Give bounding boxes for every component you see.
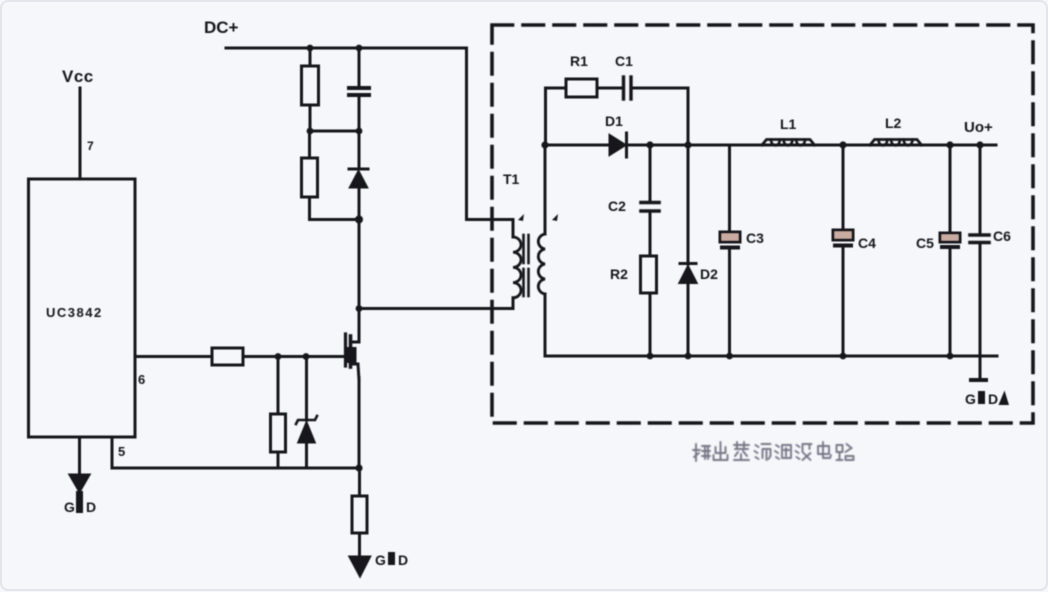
wire snubber right leg (687, 88, 690, 145)
wire pin5 bottom rail (112, 467, 359, 470)
dashed output box (492, 25, 1033, 423)
junction on top rail at x310 (307, 45, 314, 52)
wire drain column (358, 220, 361, 340)
svg-text:C3: C3 (746, 230, 764, 246)
svg-text:C6: C6 (993, 228, 1011, 244)
secondary winding (544, 145, 547, 234)
svg-text:7: 7 (87, 139, 94, 153)
diode (clamp, cathode up) (349, 131, 368, 220)
resistor (gate pulldown) (271, 357, 286, 469)
wire output bottom rail (545, 355, 997, 358)
svg-text:G: G (375, 552, 386, 568)
wire DC+ top rail (226, 47, 467, 50)
svg-text:Vcc: Vcc (62, 67, 94, 86)
resistor (startup upper) (302, 48, 319, 131)
svg-text:R2: R2 (610, 266, 628, 282)
svg-text:D2: D2 (700, 266, 718, 282)
wire Vcc to U1 pin7 (79, 88, 82, 179)
junction bottom x729 (726, 353, 733, 360)
junction rail x843 (839, 141, 846, 148)
svg-text:D: D (988, 391, 998, 407)
MOSFET Q1 (306, 334, 359, 380)
svg-text:C1: C1 (615, 53, 633, 69)
junction gate wire x278 (275, 353, 282, 360)
junction rail x980 (976, 141, 983, 148)
diode D1 (605, 113, 627, 157)
wire source column (358, 378, 361, 468)
svg-text:UC3842: UC3842 (46, 305, 103, 320)
svg-text:Uo+: Uo+ (964, 119, 993, 136)
junction source/rail (355, 464, 362, 471)
capacitor C6 (970, 145, 1011, 356)
svg-text:C2: C2 (608, 198, 626, 214)
junction rail x650 (646, 141, 653, 148)
junction rail x688 (684, 141, 691, 148)
wire top rail corner down to transformer primary (467, 48, 514, 220)
wire snubber left leg (544, 88, 547, 145)
svg-text:C5: C5 (916, 235, 934, 251)
junction drain / primary return (356, 305, 363, 312)
svg-text:D: D (398, 552, 408, 568)
svg-text:L1: L1 (780, 116, 797, 132)
transformer T1 (503, 145, 558, 356)
wire pin5 stub (111, 437, 114, 468)
inductor L1 (762, 116, 815, 146)
svg-text:C4: C4 (858, 235, 876, 251)
phase dot primary (518, 214, 524, 221)
wire secondary top rail (545, 144, 996, 147)
junction gate wire x306 (303, 353, 310, 360)
caption 输出整流滤波电路 (gray squiggles) (693, 442, 854, 461)
junction lower connector (355, 216, 363, 224)
ground below source resistor (349, 552, 409, 578)
capacitor C4 (833, 145, 876, 356)
resistor R2 (610, 256, 657, 356)
junction rail x950 (946, 141, 953, 148)
svg-text:R1: R1 (570, 53, 588, 69)
capacitor (Vcc supply) (349, 48, 369, 131)
junction bottom x950 (947, 353, 954, 360)
svg-text:G: G (64, 499, 75, 515)
svg-text:L2: L2 (885, 115, 902, 131)
phase dot secondary (552, 214, 558, 221)
inductor L2 (870, 115, 922, 146)
zener diode (gate protect) (296, 357, 317, 469)
snubber resistor R1 (546, 53, 622, 97)
ground below U1 (64, 437, 96, 515)
wire transformer primary bottom return (359, 307, 513, 310)
capacitor C2 (608, 145, 659, 256)
junction on top rail at x359 (356, 45, 363, 52)
capacitor C3 (720, 145, 764, 356)
wire lower connector (310, 218, 360, 221)
svg-text:D: D (86, 499, 96, 515)
resistor (supply lower) (302, 131, 318, 220)
core bars (522, 235, 525, 263)
junction bottom x650 (647, 353, 654, 360)
primary winding (512, 220, 515, 238)
junction mid left (307, 128, 314, 135)
svg-text:5: 5 (118, 444, 125, 459)
resistor (source sense) (352, 468, 367, 557)
diode D2 (freewheel, cathode up) (679, 145, 719, 356)
resistor (gate series) (135, 348, 345, 365)
junction rail x545 (541, 141, 548, 148)
junction bottom x843 (840, 353, 847, 360)
svg-text:DC+: DC+ (204, 18, 239, 37)
wire mid connector (310, 130, 359, 133)
snubber capacitor C1 (615, 53, 688, 99)
junction mid right (356, 128, 363, 135)
junction bottom x688 (685, 353, 692, 360)
op-amp U1 UC3842 box (29, 179, 136, 437)
svg-text:G: G (965, 391, 976, 407)
svg-text:D1: D1 (605, 113, 623, 129)
capacitor C5 (916, 145, 960, 356)
ground GNDA output (965, 356, 1009, 407)
svg-text:T1: T1 (503, 171, 520, 187)
svg-text:6: 6 (138, 372, 145, 387)
